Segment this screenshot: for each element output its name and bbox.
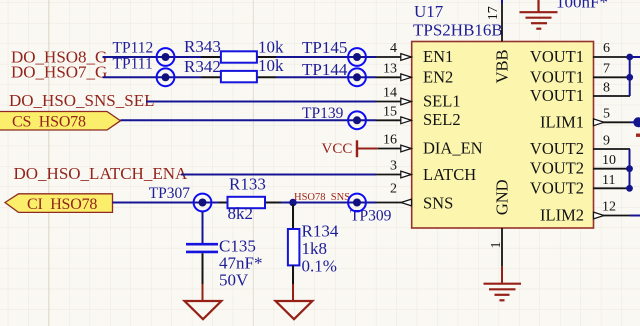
pin 4 EN1: [376, 56, 412, 58]
svg-text:VOUT2: VOUT2: [530, 179, 584, 198]
power ground (bars) bottom: [484, 283, 522, 285]
svg-text:VBB: VBB: [493, 49, 512, 83]
svg-text:CS HSO78: CS HSO78: [12, 114, 86, 131]
svg-text:VOUT2: VOUT2: [530, 159, 584, 178]
svg-text:R343: R343: [184, 37, 221, 56]
svg-text:10k: 10k: [258, 38, 284, 57]
svg-text:15: 15: [383, 104, 397, 119]
svg-text:ILIM2: ILIM2: [540, 206, 584, 225]
svg-text:100nF*: 100nF*: [556, 0, 608, 12]
ground (triangle) under R134: [276, 301, 313, 319]
svg-text:TP111: TP111: [113, 56, 153, 73]
svg-text:10: 10: [602, 153, 616, 168]
wire junction down to R134: [292, 204, 294, 230]
pin 15 SEL2: [376, 119, 412, 121]
wire row2: DO_HSO7_G to R342: [103, 76, 202, 78]
pin C135 to ground: [202, 253, 204, 284]
svg-text:10k: 10k: [258, 56, 284, 75]
net label stub top right: [636, 134, 640, 137]
wire VOUT2 bus: [629, 149, 631, 188]
port CI_HSO78: [5, 194, 113, 213]
svg-text:8: 8: [603, 81, 610, 96]
svg-text:4: 4: [390, 41, 397, 56]
svg-text:11: 11: [602, 173, 615, 188]
svg-text:TPS2HB16B: TPS2HB16B: [413, 21, 503, 40]
svg-text:DIA_EN: DIA_EN: [423, 139, 483, 158]
svg-text:8k2: 8k2: [228, 204, 254, 223]
wire TP307 down to C135: [202, 212, 204, 243]
svg-text:DO_HSO_LATCH_ENA: DO_HSO_LATCH_ENA: [14, 164, 189, 183]
svg-text:50V: 50V: [219, 271, 249, 290]
svg-text:5: 5: [603, 106, 610, 121]
svg-text:16: 16: [383, 133, 397, 148]
svg-text:0.1%: 0.1%: [302, 257, 337, 276]
svg-text:DO_HSO7_G: DO_HSO7_G: [11, 63, 107, 82]
svg-text:13: 13: [383, 61, 397, 76]
pin 3 LATCH: [376, 174, 412, 176]
port CS_HSO78: [0, 112, 121, 131]
svg-text:TP144: TP144: [302, 60, 348, 79]
svg-text:VOUT2: VOUT2: [530, 139, 584, 158]
svg-text:VCC: VCC: [322, 141, 353, 157]
pin 9 VOUT2: [593, 148, 630, 150]
svg-text:DO_HSO_SNS_SEL: DO_HSO_SNS_SEL: [9, 91, 154, 110]
svg-text:VOUT1: VOUT1: [530, 86, 584, 105]
pin 10 VOUT2: [593, 168, 630, 170]
major grid line: [48, 0, 50, 326]
svg-text:GND: GND: [493, 179, 512, 215]
svg-text:SNS: SNS: [423, 194, 453, 213]
pin 13 EN2: [376, 76, 412, 78]
svg-text:CI HSO78: CI HSO78: [27, 196, 97, 213]
svg-text:TP139: TP139: [302, 105, 344, 122]
wire VOUT1 bus: [629, 57, 631, 96]
pin 17 VBB top: [501, 3, 503, 42]
pin 2 SNS: [376, 202, 412, 204]
svg-text:U17: U17: [414, 2, 444, 21]
svg-text:6: 6: [603, 41, 610, 56]
svg-text:TP145: TP145: [302, 38, 347, 57]
svg-text:7: 7: [603, 61, 610, 76]
svg-text:12: 12: [602, 200, 616, 215]
svg-text:TP307: TP307: [149, 185, 191, 202]
svg-text:SEL2: SEL2: [423, 110, 461, 129]
wire row4: [121, 119, 377, 121]
svg-text:HSO78 SNS: HSO78 SNS: [294, 192, 350, 203]
svg-text:9: 9: [603, 134, 610, 149]
svg-text:TP112: TP112: [113, 40, 154, 57]
wire R343 to TP145 to pin 4: [276, 56, 376, 58]
svg-text:R133: R133: [229, 175, 266, 194]
pin 14 SEL1: [376, 101, 412, 103]
pin 16 DIA_EN: [378, 148, 412, 150]
ground (triangle) under C135: [185, 301, 222, 319]
svg-text:SEL1: SEL1: [423, 92, 461, 111]
svg-text:EN2: EN2: [423, 67, 453, 86]
svg-text:14: 14: [383, 86, 397, 101]
pin 5 ILIM1: [593, 121, 630, 123]
wire R342 to TP144 to pin 13: [276, 76, 376, 78]
pin 12 ILIM2: [593, 215, 630, 217]
junction node HSO78_SNS: [289, 199, 297, 207]
wire row6: [181, 174, 376, 176]
pin 6 VOUT1: [593, 56, 630, 58]
wire row1: DO_HSO8_G to R343: [103, 56, 202, 58]
svg-text:ILIM1: ILIM1: [540, 113, 584, 132]
svg-text:3: 3: [390, 159, 397, 174]
pin 8 VOUT1: [593, 95, 630, 97]
svg-text:17: 17: [486, 6, 501, 20]
pin 1 GND bottom: [501, 228, 503, 266]
pin R134 to ground: [292, 265, 294, 284]
svg-text:LATCH: LATCH: [423, 165, 476, 184]
svg-text:EN1: EN1: [423, 47, 453, 66]
svg-text:1k8: 1k8: [302, 239, 328, 258]
svg-text:R342: R342: [184, 57, 221, 76]
pin 11 VOUT2: [593, 187, 630, 189]
svg-text:TP309: TP309: [350, 208, 392, 225]
svg-text:R134: R134: [302, 222, 339, 241]
wire row3: [146, 101, 376, 103]
svg-text:2: 2: [390, 182, 397, 197]
wire R133 to TP309 to pin 2: [281, 202, 376, 204]
wire row7: port CI to TP307 to R133: [113, 202, 220, 204]
svg-text:VOUT1: VOUT1: [530, 67, 584, 86]
svg-text:VOUT1: VOUT1: [530, 47, 584, 66]
power ground (bars) top: [537, 0, 539, 12]
svg-text:1: 1: [489, 242, 504, 249]
pin 7 VOUT1: [593, 76, 630, 78]
